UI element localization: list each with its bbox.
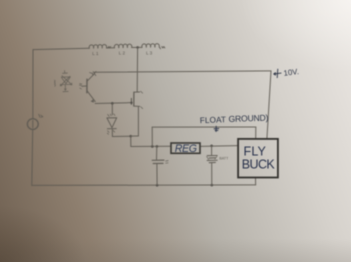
- junction dot capacitor-bottom: [156, 184, 159, 187]
- svg-text:FLY: FLY: [244, 145, 267, 159]
- wire diode bottom to source node: [112, 135, 130, 137]
- label +10V: [274, 67, 300, 78]
- wire emitter to gate: [95, 102, 131, 105]
- svg-text:L 3: L 3: [146, 50, 153, 55]
- wire source jog down: [131, 136, 139, 147]
- junction dot source node: [129, 135, 132, 138]
- svg-text:L 2: L 2: [119, 51, 126, 56]
- junction dot battery tap: [210, 144, 213, 147]
- junction dot capacitor tap: [156, 145, 159, 148]
- svg-text:10V.: 10V.: [283, 67, 299, 78]
- svg-text:BATT: BATT: [219, 157, 229, 161]
- ground symbol float ground: [214, 126, 219, 132]
- LED D2 opto: [54, 71, 72, 92]
- transistor Q1 BJT: [79, 73, 95, 102]
- svg-text:GROUND): GROUND): [228, 113, 268, 124]
- label FLOAT GROUND: [200, 113, 269, 126]
- svg-text:FLOAT: FLOAT: [200, 115, 227, 125]
- transistor Q2 MOSFET: [130, 47, 143, 136]
- junction dot float-ground tap: [151, 145, 154, 148]
- diode D1: [107, 103, 117, 136]
- wire float ground horizontal: [152, 126, 256, 128]
- wire REG to FLY BUCK: [200, 145, 238, 148]
- open end mark after L3: [159, 47, 165, 49]
- wire left rail lower: [31, 130, 34, 186]
- junction dot L2-L3 to drain: [136, 46, 139, 49]
- wire float ground vertical: [151, 127, 153, 146]
- inductor L2: [114, 44, 132, 56]
- wire FLY BUCK bottom drop: [255, 178, 257, 185]
- wire between L1 and L2 with mark: [107, 47, 115, 48]
- junction dot battery-bottom: [211, 184, 214, 187]
- inductor L3: [142, 44, 160, 56]
- svg-text:BUCK: BUCK: [242, 158, 276, 172]
- wire left rail upper: [32, 50, 34, 119]
- REG box U1: [171, 143, 200, 155]
- wire float ground drop to FLY BUCK: [255, 127, 257, 138]
- wire bottom rail: [32, 184, 256, 187]
- wire +10V vertical drop to FLY BUCK: [267, 71, 271, 139]
- svg-text:REG: REG: [175, 143, 197, 155]
- wire +10V horizontal rail: [90, 71, 271, 76]
- wire L2 to L3 through junction: [132, 46, 142, 48]
- wire node to REG: [131, 145, 171, 147]
- FLY BUCK box U2: [238, 139, 278, 178]
- junction dot diode top: [111, 102, 114, 105]
- inductor L1: [89, 45, 107, 56]
- current source I1: [27, 114, 42, 129]
- capacitor C1: [152, 146, 168, 185]
- svg-text:L 1: L 1: [92, 51, 99, 56]
- wire top rail left segment: [33, 48, 89, 49]
- battery BT1: [207, 146, 230, 185]
